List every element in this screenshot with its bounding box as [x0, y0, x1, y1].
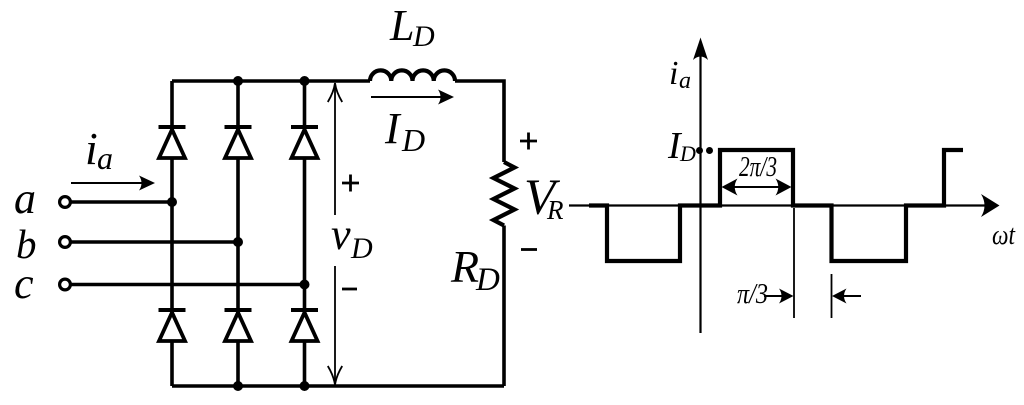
svg-text:v: v	[331, 210, 351, 259]
svg-text:a: a	[679, 68, 691, 94]
svg-text:ωt: ωt	[992, 219, 1016, 251]
svg-text:D: D	[475, 262, 500, 298]
svg-text:R: R	[546, 195, 564, 225]
svg-text:a: a	[14, 174, 36, 223]
svg-text:π/3: π/3	[737, 278, 768, 310]
svg-text:2π/3: 2π/3	[739, 151, 777, 183]
svg-text:D: D	[412, 20, 435, 53]
svg-text:L: L	[389, 1, 414, 50]
svg-text:i: i	[669, 55, 678, 92]
svg-text:D: D	[350, 232, 373, 265]
svg-text:R: R	[450, 241, 479, 292]
svg-text:a: a	[97, 140, 113, 176]
svg-text:I: I	[384, 104, 402, 153]
svg-text:i: i	[85, 123, 98, 174]
svg-text:D: D	[401, 122, 425, 158]
svg-text:c: c	[14, 259, 34, 308]
svg-text:D: D	[679, 141, 696, 166]
